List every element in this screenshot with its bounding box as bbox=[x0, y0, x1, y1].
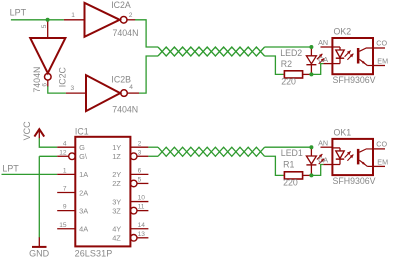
label IC1 bbox=[75, 127, 89, 137]
junction node CA1 bbox=[309, 173, 313, 177]
svg-text:7404N: 7404N bbox=[112, 104, 138, 114]
net label LPT (bottom) bbox=[2, 163, 19, 173]
svg-text:SFH9306V: SFH9306V bbox=[333, 75, 376, 85]
VCC supply symbol bbox=[34, 129, 44, 138]
optocoupler OK1 pin EM bbox=[373, 157, 388, 166]
IC1 pin 4 (G) bbox=[57, 140, 85, 152]
LED1 emission arrows bbox=[317, 154, 324, 164]
inverter IC2A pin 1 (input) with pin number bbox=[64, 12, 85, 20]
svg-text:2A: 2A bbox=[79, 188, 88, 197]
IC1 pin 6 (2Y) bbox=[112, 167, 148, 179]
svg-text:3: 3 bbox=[138, 149, 142, 156]
wire net LPT to IC1 pin 1A bbox=[2, 173, 58, 175]
value SFH9306V (OK1) bbox=[333, 176, 376, 186]
svg-text:26LS31P: 26LS31P bbox=[75, 249, 113, 259]
inverter IC2C (7404N) bbox=[30, 38, 65, 80]
svg-text:7404N: 7404N bbox=[32, 67, 42, 93]
inverter IC2B pin 3 stub bbox=[66, 92, 86, 94]
resistor R1 bbox=[284, 172, 302, 179]
wire braid to LED2 anode junction bbox=[265, 46, 312, 48]
twisted pair braid (top channel) wire A bbox=[158, 47, 265, 56]
svg-text:2: 2 bbox=[129, 12, 133, 19]
svg-text:5: 5 bbox=[138, 177, 142, 184]
ground symbol GND bbox=[32, 237, 47, 247]
svg-text:IC1: IC1 bbox=[75, 127, 89, 137]
svg-text:IC2A: IC2A bbox=[111, 0, 131, 10]
label 7404N (IC2C value, rotated) bbox=[32, 67, 42, 93]
svg-text:2Z: 2Z bbox=[112, 179, 121, 188]
twisted pair braid (top channel) wire B bbox=[158, 47, 265, 56]
wire braid to R1 bbox=[265, 156, 284, 175]
svg-text:LPT: LPT bbox=[10, 8, 27, 18]
svg-text:VCC: VCC bbox=[22, 121, 32, 141]
svg-text:10: 10 bbox=[138, 195, 146, 202]
svg-text:1: 1 bbox=[63, 167, 67, 174]
wire braid to R2 bbox=[265, 56, 284, 74]
label OK1 bbox=[334, 127, 352, 137]
inverter IC2C pin 5 (input) with pin number bbox=[41, 20, 48, 38]
svg-text:9: 9 bbox=[63, 204, 67, 211]
wire IC1 pin 2 to braid bbox=[148, 146, 158, 148]
svg-text:1Y: 1Y bbox=[112, 143, 121, 152]
svg-text:CO: CO bbox=[376, 140, 387, 149]
svg-text:7: 7 bbox=[63, 186, 67, 193]
wire CA2 junction to OK2 cathode pin bbox=[311, 64, 323, 75]
LED1 diode bbox=[306, 147, 316, 175]
IC1 pin 2 (1Y) bbox=[112, 140, 148, 152]
junction node CA2 bbox=[309, 72, 313, 76]
wire net LPT top rail bbox=[11, 19, 64, 21]
IC1 pin 15 (4A) bbox=[57, 222, 88, 234]
svg-text:LED2: LED2 bbox=[280, 48, 302, 58]
svg-text:5: 5 bbox=[41, 24, 48, 28]
resistor R1 pins bbox=[283, 174, 311, 176]
svg-text:EM: EM bbox=[377, 157, 388, 166]
svg-text:IC2B: IC2B bbox=[111, 75, 131, 85]
net label LPT (top) bbox=[10, 8, 27, 18]
optocoupler OK1 pin CO bbox=[373, 140, 387, 149]
label R2 bbox=[281, 59, 292, 69]
svg-text:SFH9306V: SFH9306V bbox=[333, 176, 376, 186]
svg-text:3: 3 bbox=[71, 85, 75, 92]
inverter IC2B pin 4 (output) with pin number bbox=[127, 84, 139, 93]
svg-text:220: 220 bbox=[281, 77, 296, 87]
wire IC2A output to braid bbox=[135, 20, 158, 47]
svg-text:1: 1 bbox=[71, 12, 75, 19]
svg-text:13: 13 bbox=[138, 231, 146, 238]
svg-text:4Z: 4Z bbox=[112, 234, 121, 243]
optocoupler OK2 pin CO bbox=[373, 39, 387, 48]
label 7404N (IC2B value) bbox=[112, 104, 138, 114]
value 26LS31P (IC1) bbox=[75, 249, 113, 259]
svg-text:1A: 1A bbox=[79, 170, 88, 179]
svg-text:2Y: 2Y bbox=[112, 170, 121, 179]
svg-text:LED1: LED1 bbox=[281, 148, 303, 158]
svg-text:G: G bbox=[79, 143, 85, 152]
inverter IC2A pin 2 (output) with pin number bbox=[127, 12, 136, 20]
optocoupler OK1 pin AN bbox=[318, 139, 332, 148]
svg-text:R1: R1 bbox=[283, 159, 294, 169]
svg-text:OK2: OK2 bbox=[334, 27, 352, 37]
svg-text:1Z: 1Z bbox=[112, 152, 121, 161]
wire IC2C out to IC2B in bbox=[48, 86, 66, 93]
junction node LPT/IC2C bbox=[46, 18, 50, 22]
label LED2 bbox=[280, 48, 302, 58]
label R1 bbox=[283, 159, 294, 169]
svg-text:3Y: 3Y bbox=[112, 197, 121, 206]
wire braid to LED1 anode junction bbox=[265, 146, 312, 148]
optocoupler OK2 (SFH9306V) bbox=[332, 38, 373, 74]
svg-text:11: 11 bbox=[138, 204, 145, 211]
svg-text:CA: CA bbox=[318, 55, 328, 64]
IC1 pin 11 (3Z) bbox=[112, 204, 148, 216]
optocoupler OK2 pin EM bbox=[373, 56, 388, 65]
svg-text:12: 12 bbox=[59, 149, 67, 156]
IC1 pin 5 (2Z) bbox=[112, 177, 148, 189]
label IC2C (name, rotated) bbox=[58, 67, 68, 88]
pin number 3 (IC2B input) bbox=[71, 85, 75, 92]
optocoupler OK2 pin CA bbox=[318, 55, 332, 64]
IC1 pin 14 (4Y) bbox=[112, 222, 148, 234]
svg-text:6: 6 bbox=[138, 167, 142, 174]
IC1 pin 7 (2A) bbox=[57, 186, 88, 198]
svg-text:4: 4 bbox=[63, 140, 67, 147]
value 220 (R2) bbox=[281, 77, 296, 87]
svg-text:4: 4 bbox=[129, 84, 133, 91]
svg-text:3A: 3A bbox=[79, 206, 88, 215]
IC1 pin 10 (3Y) bbox=[112, 195, 148, 207]
value SFH9306V (OK2) bbox=[333, 75, 376, 85]
LED2 emission arrows bbox=[317, 54, 324, 64]
svg-text:220: 220 bbox=[283, 177, 298, 187]
svg-text:4Y: 4Y bbox=[112, 225, 121, 234]
twisted pair braid (bottom channel) wire A bbox=[158, 147, 265, 156]
resistor R2 bbox=[284, 71, 302, 78]
resistor R2 pins bbox=[283, 73, 311, 75]
svg-text:OK1: OK1 bbox=[334, 127, 352, 137]
IC1 pin 9 (3A) bbox=[57, 204, 88, 216]
label GND bbox=[29, 249, 49, 259]
label 7404N (IC2A value) bbox=[113, 28, 139, 38]
junction node AN1 bbox=[309, 145, 313, 149]
wire IC1 pin 3 to braid bbox=[148, 155, 158, 157]
wire VCC to IC1 pin G bbox=[39, 138, 57, 147]
optocoupler OK1 pin CA bbox=[318, 156, 332, 165]
inverter IC2A (7404N) bbox=[85, 3, 127, 37]
IC1 pin 13 (4Z) bbox=[112, 231, 148, 243]
label LED1 bbox=[281, 148, 303, 158]
svg-text:3Z: 3Z bbox=[112, 206, 121, 215]
IC1 pin 12 (G\) bbox=[57, 149, 88, 161]
optocoupler OK1 (SFH9306V) bbox=[332, 139, 373, 175]
optocoupler OK2 pin AN bbox=[318, 38, 332, 47]
IC line driver IC1 (26LS31P) body bbox=[75, 137, 130, 247]
svg-text:GND: GND bbox=[29, 249, 49, 259]
svg-text:7404N: 7404N bbox=[113, 28, 139, 38]
svg-text:4A: 4A bbox=[79, 225, 88, 234]
svg-text:LPT: LPT bbox=[2, 163, 19, 173]
inverter IC2B (7404N) bbox=[86, 75, 127, 111]
svg-text:EM: EM bbox=[377, 56, 388, 65]
svg-text:AN: AN bbox=[318, 38, 328, 47]
wire CA1 junction to OK1 cathode pin bbox=[311, 165, 323, 176]
svg-text:AN: AN bbox=[318, 139, 328, 148]
twisted pair braid (bottom channel) wire B bbox=[158, 147, 265, 156]
inverter IC2C pin 6 (output) with pin number bbox=[41, 80, 48, 87]
svg-text:15: 15 bbox=[59, 222, 67, 229]
label IC2A bbox=[111, 0, 131, 10]
junction node AN2 bbox=[309, 45, 313, 49]
svg-text:CA: CA bbox=[318, 156, 328, 165]
LED2 diode bbox=[306, 47, 316, 74]
svg-text:2: 2 bbox=[138, 140, 142, 147]
wire IC2B output to braid bbox=[139, 56, 158, 93]
svg-text:14: 14 bbox=[138, 222, 146, 229]
svg-text:G\: G\ bbox=[79, 152, 88, 161]
label IC2B bbox=[111, 75, 131, 85]
label OK2 bbox=[334, 27, 352, 37]
wire GND to IC1 pin G-bar bbox=[39, 156, 57, 237]
value 220 (R1) bbox=[283, 177, 298, 187]
IC1 pin 3 (1Z) bbox=[112, 149, 148, 161]
svg-text:6: 6 bbox=[41, 83, 48, 87]
svg-text:CO: CO bbox=[376, 39, 387, 48]
svg-text:IC2C: IC2C bbox=[58, 67, 68, 88]
label VCC (rotated) bbox=[22, 121, 32, 141]
svg-text:R2: R2 bbox=[281, 59, 292, 69]
IC1 pin 1 (1A) bbox=[57, 167, 88, 179]
